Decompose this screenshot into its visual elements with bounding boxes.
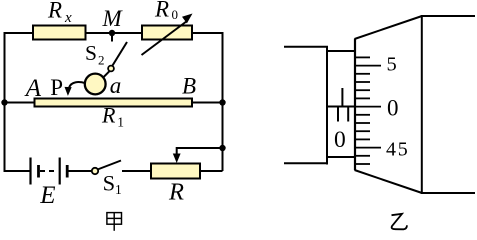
svg-text:B: B xyxy=(182,74,196,99)
svg-text:1: 1 xyxy=(115,182,122,197)
svg-text:S: S xyxy=(85,41,97,65)
svg-text:S: S xyxy=(103,171,116,196)
rheostat R box xyxy=(151,164,200,179)
svg-text:2: 2 xyxy=(98,53,105,68)
wire battery to S1 xyxy=(67,170,92,172)
svg-text:x: x xyxy=(64,10,72,26)
svg-text:0: 0 xyxy=(387,96,399,121)
rheostat arrowhead xyxy=(173,154,181,164)
svg-text:R: R xyxy=(168,179,184,206)
thimble top slant xyxy=(355,16,423,39)
wire pivot to galvanometer xyxy=(104,71,110,77)
resistor R0 xyxy=(142,26,192,40)
micrometer main scale line xyxy=(327,106,355,108)
slide wire R1 xyxy=(35,99,193,107)
wire tap vertical xyxy=(176,147,178,154)
battery E cell1 long plate xyxy=(29,158,31,185)
svg-text:0: 0 xyxy=(334,127,346,153)
svg-text:R: R xyxy=(154,0,169,22)
ratchet bottom line xyxy=(422,192,475,194)
micrometer sleeve top edge xyxy=(327,50,355,52)
svg-text:E: E xyxy=(39,182,55,209)
galvanometer circle xyxy=(85,74,106,95)
slider P curve wire xyxy=(69,82,85,87)
svg-text:1: 1 xyxy=(117,114,124,129)
label jia (甲) xyxy=(107,213,122,231)
svg-text:M: M xyxy=(102,6,124,31)
wire S1 to R xyxy=(122,170,151,172)
main scale tick below 0 xyxy=(337,107,339,122)
wire left vertical xyxy=(4,33,6,171)
svg-text:R: R xyxy=(101,103,116,128)
switch S2 blade xyxy=(113,42,128,66)
micrometer sleeve left edge xyxy=(326,46,328,165)
svg-text:P: P xyxy=(50,75,63,100)
wire B side xyxy=(192,102,223,104)
battery dashed link xyxy=(40,170,58,172)
thimble right edge xyxy=(421,15,423,194)
node A-left xyxy=(1,99,7,105)
battery E cell2 long plate xyxy=(59,158,61,185)
thimble left edge xyxy=(354,39,356,170)
resistor Rx xyxy=(33,26,86,40)
battery E cell1 short plate xyxy=(37,165,40,178)
micrometer stem top line xyxy=(284,46,328,48)
wire right vertical xyxy=(222,33,224,171)
thimble bottom slant xyxy=(355,170,423,193)
node M xyxy=(109,30,115,36)
switch S2 stub from M xyxy=(111,33,113,42)
main scale tick below 2 xyxy=(347,107,349,122)
micrometer sleeve bottom edge xyxy=(327,156,355,158)
wire A side xyxy=(4,102,35,104)
wire top horizontal xyxy=(4,32,224,34)
wire bottom horizontal xyxy=(4,170,31,172)
label yi (乙) xyxy=(392,214,408,230)
thimble ticks xyxy=(355,57,381,164)
svg-text:a: a xyxy=(110,73,122,98)
switch S2 pivot xyxy=(108,66,114,72)
wire tap horizontal xyxy=(177,147,224,149)
arrow through R0 xyxy=(142,21,188,55)
switch S1 blade xyxy=(98,161,122,170)
node B-right xyxy=(219,99,225,105)
main scale tick above xyxy=(341,88,343,107)
slider P arrowhead xyxy=(65,87,72,96)
micrometer stem bottom line xyxy=(284,162,328,164)
svg-text:5: 5 xyxy=(387,53,397,75)
svg-text:0: 0 xyxy=(172,7,179,22)
ratchet top line xyxy=(422,15,475,17)
wire R to right xyxy=(200,170,223,172)
svg-text:45: 45 xyxy=(386,139,410,161)
svg-text:R: R xyxy=(47,0,62,23)
battery E cell2 short plate xyxy=(66,165,69,178)
node tap xyxy=(219,145,225,151)
switch S1 pivot xyxy=(92,168,98,174)
